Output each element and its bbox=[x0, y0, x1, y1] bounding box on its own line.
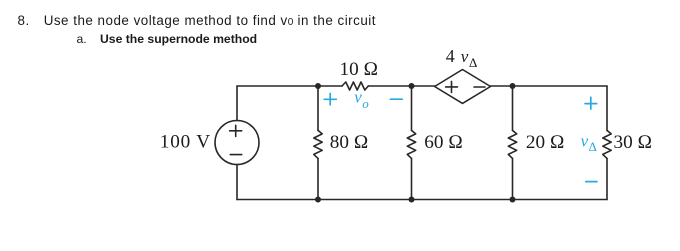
resistor 80 Ω zigzag bbox=[314, 130, 322, 158]
svg-text:vo: vo bbox=[354, 88, 369, 111]
wire 20 Ω branch lower bbox=[512, 158, 514, 199]
wire left branch upper bbox=[236, 86, 238, 121]
svg-text:80 Ω: 80 Ω bbox=[330, 132, 369, 153]
node dot bottom of 20 Ω branch bbox=[510, 197, 516, 203]
dependent source plus sign bbox=[446, 81, 458, 92]
wire 30 Ω branch upper bbox=[606, 86, 608, 130]
resistor 60 Ω zigzag bbox=[407, 130, 415, 158]
resistor 20 Ω zigzag bbox=[508, 130, 516, 158]
wire 60 Ω branch lower bbox=[411, 158, 413, 199]
svg-text:30 Ω: 30 Ω bbox=[614, 132, 653, 153]
wire 80 Ω branch lower bbox=[317, 158, 319, 199]
resistor 10 Ω zigzag bbox=[342, 82, 368, 90]
svg-text:20 Ω: 20 Ω bbox=[526, 132, 565, 153]
wire 80 Ω branch upper bbox=[317, 86, 319, 130]
problem statement line 1 bbox=[18, 13, 30, 28]
problem statement line 2 bbox=[77, 32, 87, 46]
dependent source 4 vΔ diamond bbox=[435, 70, 491, 104]
voltage source 100 V circle bbox=[215, 121, 259, 165]
voltage source minus sign bbox=[230, 154, 241, 156]
wire top left segment bbox=[237, 85, 342, 87]
node dot bottom of 80 Ω branch bbox=[315, 197, 321, 203]
label vΔ polarity minus on 30 Ω bbox=[586, 181, 597, 183]
wire 20 Ω branch upper bbox=[512, 86, 514, 130]
wire bottom rail bbox=[237, 199, 607, 201]
label vo polarity minus bbox=[390, 98, 402, 100]
svg-text:100 V: 100 V bbox=[160, 132, 211, 153]
wire top right segment bbox=[491, 85, 608, 87]
node dot top of 60 Ω branch bbox=[409, 83, 415, 89]
svg-text:4 vΔ: 4 vΔ bbox=[446, 46, 478, 70]
node dot top of 20 Ω branch bbox=[510, 83, 516, 89]
label vΔ polarity plus on 30 Ω bbox=[585, 97, 597, 109]
wire 30 Ω branch lower bbox=[606, 158, 608, 199]
label vo polarity plus bbox=[324, 94, 336, 105]
svg-text:60 Ω: 60 Ω bbox=[424, 132, 463, 153]
node dot bottom of 60 Ω branch bbox=[409, 197, 415, 203]
wire 60 Ω branch upper bbox=[411, 86, 413, 130]
wire left branch lower bbox=[236, 165, 238, 200]
svg-text:vΔ: vΔ bbox=[581, 132, 598, 154]
dependent source minus sign bbox=[474, 86, 485, 88]
wire top middle segment bbox=[368, 85, 434, 87]
svg-text:10 Ω: 10 Ω bbox=[340, 59, 379, 80]
voltage source plus sign bbox=[230, 125, 242, 136]
resistor 30 Ω zigzag bbox=[603, 130, 611, 158]
node dot top of 80 Ω branch bbox=[315, 83, 321, 89]
